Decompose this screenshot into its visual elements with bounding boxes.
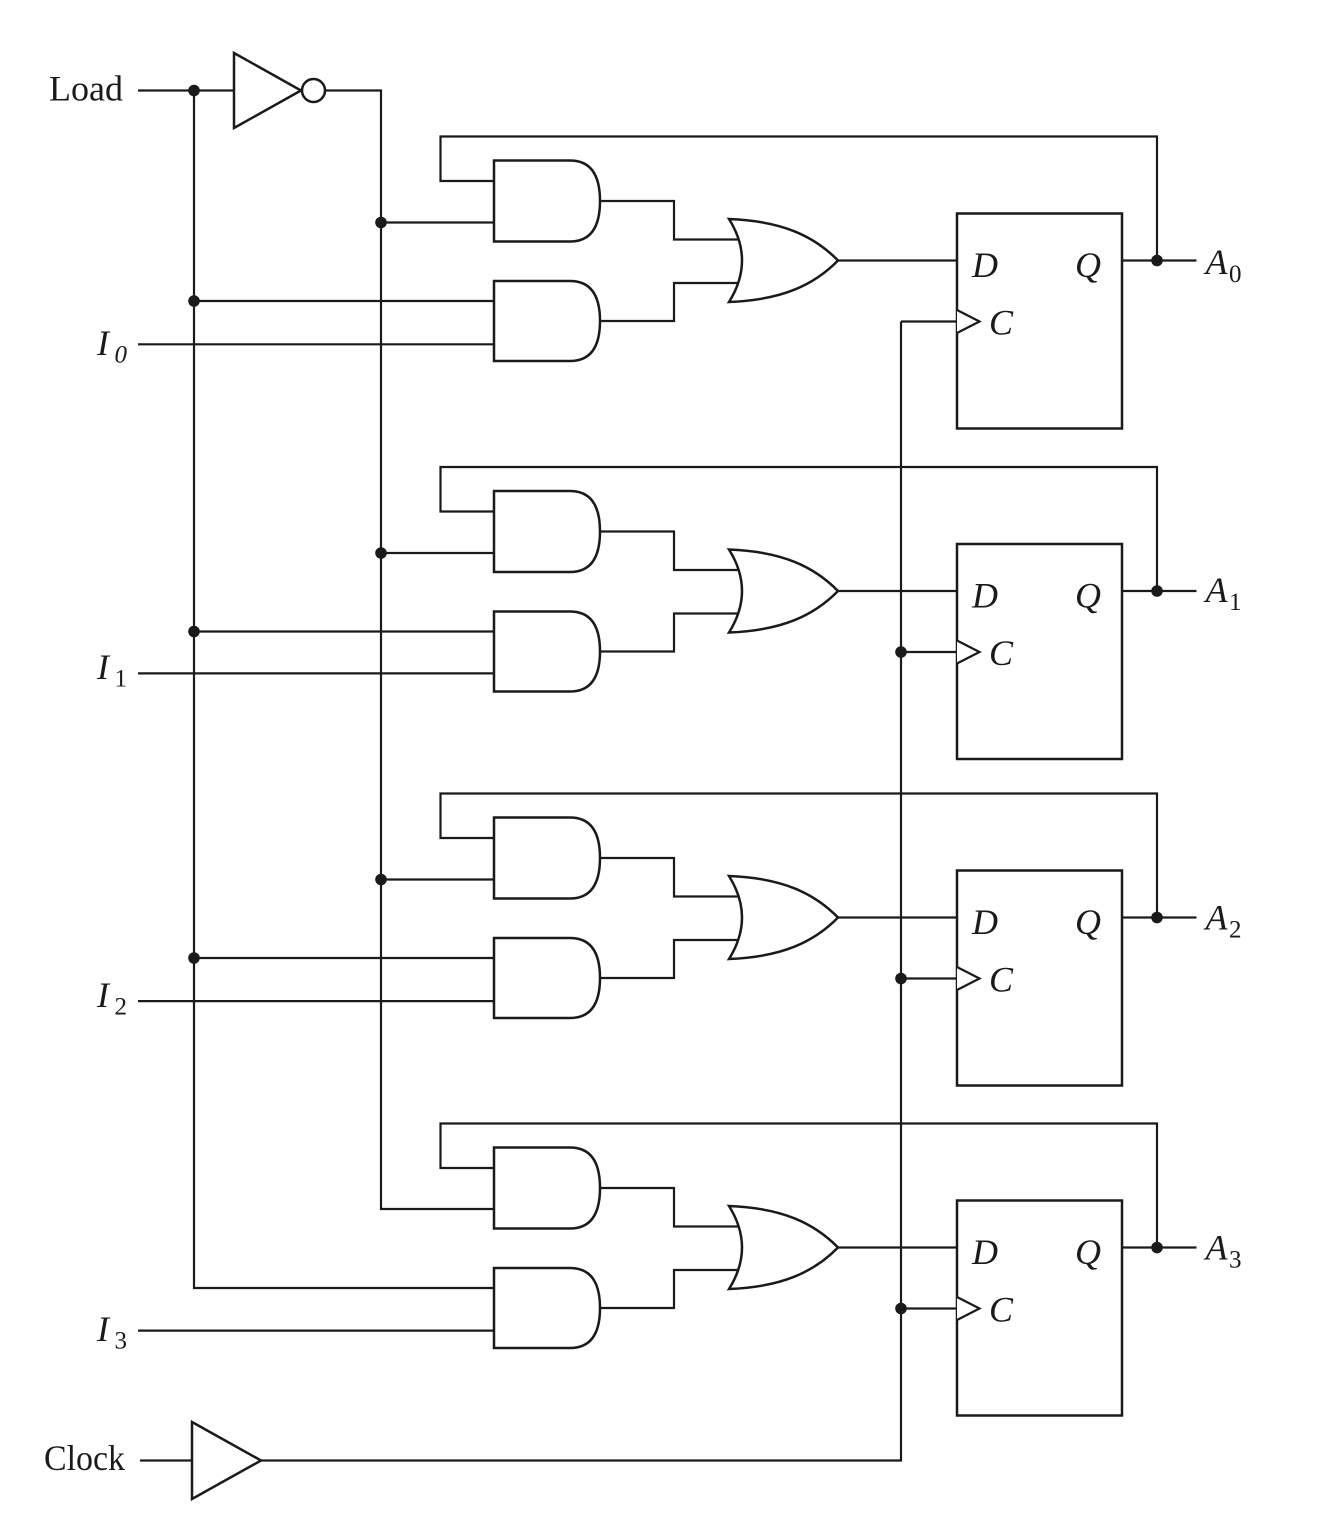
FF1 clock wedge	[957, 641, 980, 664]
AND gate stage 1 a (Q AND NOT-Load)	[494, 491, 600, 572]
wire OR output to D input stage 1	[838, 590, 957, 592]
inverter (Load') triangle	[234, 53, 301, 128]
junction Q2 output node	[1151, 912, 1163, 924]
svg-text:3: 3	[1229, 1247, 1242, 1274]
svg-text:3: 3	[115, 1328, 128, 1355]
svg-text:0: 0	[1229, 261, 1242, 288]
inverter bubble	[302, 79, 325, 102]
wire Load input	[138, 89, 234, 91]
svg-text:C: C	[989, 960, 1014, 1000]
OR gate stage 3	[729, 1206, 838, 1289]
junction NOT-Load at stage 2	[375, 874, 387, 886]
wire clock to C input of FF3	[901, 1307, 957, 1309]
wire AND-a output to OR stage 2	[600, 858, 742, 897]
svg-text:I: I	[96, 323, 111, 363]
wire clock to C input of FF2	[901, 977, 957, 979]
junction Load at inverter input	[188, 85, 200, 97]
FF3 clock wedge	[957, 1297, 980, 1320]
svg-text:A: A	[1204, 242, 1229, 282]
wire Q1 output to A1	[1122, 590, 1197, 592]
junction Q3 output node	[1151, 1242, 1163, 1254]
junction clock line at stage 1	[895, 646, 907, 658]
D flip-flop FF2	[957, 871, 1122, 1086]
junction Q0 output node	[1151, 255, 1163, 267]
wire OR output to D input stage 3	[838, 1246, 957, 1248]
svg-text:0: 0	[115, 342, 128, 369]
AND gate stage 3 b (I3 AND Load)	[494, 1268, 600, 1348]
junction clock line at stage 2	[895, 973, 907, 985]
wire AND-b output to OR stage 0	[600, 283, 742, 321]
svg-text:Q: Q	[1075, 1232, 1101, 1272]
buffer (Clock driver) triangle	[192, 1422, 261, 1499]
AND gate stage 1 b (I1 AND Load)	[494, 612, 600, 692]
wire Q0 output to A0	[1122, 259, 1197, 261]
wire NOT-Load branch to AND-a stage 1	[381, 552, 496, 554]
AND gate stage 2 b (I2 AND Load)	[494, 938, 600, 1018]
wire Load branch to AND-b stage 2	[194, 957, 496, 959]
svg-text:A: A	[1204, 898, 1229, 938]
wire I2 input	[138, 1000, 496, 1002]
wire AND-b output to OR stage 2	[600, 940, 742, 978]
svg-text:C: C	[989, 633, 1014, 673]
svg-text:I: I	[96, 647, 111, 687]
wire Clock input	[140, 1459, 192, 1461]
wire Q2 output to A2	[1122, 916, 1197, 918]
svg-text:Q: Q	[1075, 576, 1101, 616]
svg-text:1: 1	[115, 666, 128, 693]
OR gate stage 0	[729, 219, 838, 302]
D flip-flop FF0	[957, 214, 1122, 429]
svg-text:D: D	[971, 1232, 998, 1272]
AND gate stage 0 a (Q AND NOT-Load)	[494, 161, 600, 242]
wire I0 input	[138, 343, 496, 345]
svg-text:A: A	[1204, 570, 1229, 610]
wire Q3 output to A3	[1122, 1246, 1197, 1248]
wire NOT-Load branch to AND-a stage 2	[381, 878, 496, 880]
wire AND-a output to OR stage 0	[600, 201, 742, 240]
wire OR output to D input stage 2	[838, 916, 957, 918]
OR gate stage 1	[729, 550, 838, 633]
svg-text:2: 2	[1229, 917, 1242, 944]
junction NOT-Load at stage 0	[375, 217, 387, 229]
wire Q0 feedback to AND gate	[441, 137, 1158, 261]
wire Load branch to AND-b stage 1	[194, 630, 496, 632]
svg-text:D: D	[971, 902, 998, 942]
wire I1 input	[138, 672, 496, 674]
wire Load vertical bus down to stage-4 AND input	[194, 91, 496, 1289]
D flip-flop FF1	[957, 544, 1122, 759]
svg-text:A: A	[1204, 1228, 1229, 1268]
svg-text:Load: Load	[49, 69, 123, 109]
svg-text:C: C	[989, 1290, 1014, 1330]
svg-text:C: C	[989, 303, 1014, 343]
wire inverter output / NOT-Load vertical bus down to stage-4 AND input	[325, 91, 496, 1210]
AND gate stage 2 a (Q AND NOT-Load)	[494, 818, 600, 899]
FF0 clock wedge	[957, 310, 980, 333]
wire AND-b output to OR stage 1	[600, 614, 742, 652]
svg-text:I: I	[96, 1309, 111, 1349]
wire AND-b output to OR stage 3	[600, 1270, 742, 1308]
AND gate stage 0 b (I0 AND Load)	[494, 281, 600, 361]
junction Load at stage 0	[188, 295, 200, 307]
wire clock to C input of FF1	[901, 651, 957, 653]
D flip-flop FF3	[957, 1201, 1122, 1416]
junction clock line at stage 3	[895, 1303, 907, 1315]
AND gate stage 3 a (Q AND NOT-Load)	[494, 1148, 600, 1229]
junction Load at stage 1	[188, 626, 200, 638]
wire Load branch to AND-b stage 0	[194, 300, 496, 302]
wire NOT-Load branch to AND-a stage 0	[381, 221, 496, 223]
wire Q3 feedback to AND gate	[441, 1124, 1158, 1248]
junction NOT-Load at stage 1	[375, 547, 387, 559]
wire AND-a output to OR stage 3	[600, 1188, 742, 1227]
wire Clock distribution: right then up to stage-1 C input	[261, 322, 901, 1461]
junction Load at stage 2	[188, 952, 200, 964]
svg-text:D: D	[971, 245, 998, 285]
wire clock to C input of FF0	[901, 320, 957, 322]
svg-text:1: 1	[1229, 589, 1242, 616]
junction Q1 output node	[1151, 585, 1163, 597]
svg-text:2: 2	[115, 994, 128, 1021]
wire Q1 feedback to AND gate	[441, 467, 1158, 591]
OR gate stage 2	[729, 876, 838, 959]
svg-text:Clock: Clock	[44, 1438, 125, 1478]
wire OR output to D input stage 0	[838, 259, 957, 261]
svg-text:D: D	[971, 576, 998, 616]
wire I3 input	[138, 1329, 496, 1331]
FF2 clock wedge	[957, 967, 980, 990]
svg-text:Q: Q	[1075, 902, 1101, 942]
svg-text:Q: Q	[1075, 245, 1101, 285]
svg-text:I: I	[96, 975, 111, 1015]
wire AND-a output to OR stage 1	[600, 532, 742, 571]
wire Q2 feedback to AND gate	[441, 794, 1158, 918]
